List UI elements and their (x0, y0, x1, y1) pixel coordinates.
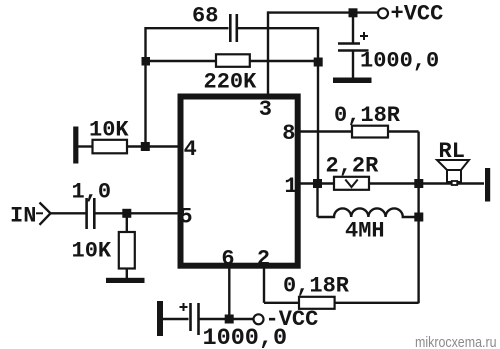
pin 4 label (184, 137, 197, 162)
wire pin3 vertical (267, 11, 269, 97)
wire top rail to +VCC (268, 11, 378, 13)
junction output node (414, 179, 423, 188)
capacitor C2 1000,0 plates (338, 44, 369, 51)
wire R3 to ground (126, 269, 128, 280)
pin 6 label (221, 247, 234, 272)
wire R4 to right rail (388, 130, 419, 132)
wire right rail vertical (417, 132, 419, 304)
resistor R5 2,2R body (334, 177, 369, 190)
wire ground to C4 (163, 318, 189, 320)
capacitor C1 68 plates (230, 14, 237, 42)
wire feedback node vertical (317, 27, 319, 184)
resistor R1 10K body (93, 140, 128, 154)
wire pin1 node down to L1 (316, 184, 318, 218)
wire +VCC cap drop (352, 13, 354, 43)
junction at +VCC rail (349, 8, 358, 17)
svg-text:1000,0: 1000,0 (360, 49, 439, 74)
op-amp U1 body (181, 97, 298, 266)
value label 10K (pin5) (72, 239, 112, 264)
svg-text:1,0: 1,0 (72, 180, 112, 205)
junction L1 right (414, 213, 423, 222)
pin 2 label (257, 247, 270, 272)
wire pin 2 to R6 (264, 302, 299, 304)
value label 0,18R (top) (334, 103, 401, 128)
wire pin 8 row (298, 130, 352, 132)
wire 68 row left (146, 27, 229, 29)
wire left node vertical (144, 27, 146, 147)
svg-text:1000,0: 1000,0 (203, 325, 288, 349)
value label 0,18R (bottom) (283, 273, 350, 298)
junction pin6 at -VCC rail (225, 315, 234, 324)
svg-text:5: 5 (179, 205, 192, 230)
speaker RL label (439, 139, 465, 164)
wire R6 to right rail (335, 302, 419, 304)
wire 68 row right (238, 27, 318, 29)
input arrow chevron (36, 203, 51, 225)
svg-text:2,2R: 2,2R (326, 154, 380, 179)
junction pin4 row (141, 142, 150, 151)
svg-text:4MH: 4MH (345, 218, 385, 243)
wire 220K row left (146, 60, 217, 62)
ground bar right of speaker (485, 168, 490, 202)
svg-text:1: 1 (284, 174, 297, 199)
svg-text:mikrocxema.ru: mikrocxema.ru (415, 334, 497, 349)
node +VCC terminal circle (378, 8, 388, 18)
svg-text:IN: IN (10, 204, 36, 229)
wire junction down to R3 (126, 213, 128, 232)
wire C3 to pin 5 (96, 212, 181, 214)
resistor R5 V mark (345, 180, 357, 188)
resistor R3 10K body (vertical) (119, 232, 135, 269)
junction pin1 node (313, 179, 322, 188)
wire pin 2 drop (263, 266, 265, 303)
pin 3 label (259, 97, 272, 122)
svg-text:220K: 220K (204, 69, 258, 94)
inductor L1 4MH (318, 208, 419, 217)
node -VCC terminal circle (254, 314, 264, 324)
wire cap to ground (352, 51, 354, 79)
ground bar below C2 (333, 78, 372, 84)
svg-text:3: 3 (259, 97, 272, 122)
wire 2,2R to output node (369, 182, 484, 184)
ground bar left of C4 (157, 301, 163, 336)
junction pin5 row (122, 209, 131, 218)
pin 5 label (179, 205, 192, 230)
resistor R2 220K body (216, 54, 250, 67)
capacitor C4 1000,0 plates (191, 303, 199, 335)
resistor R4 0,18R body (352, 126, 388, 138)
capacitor C3 1,0 plates (87, 198, 95, 229)
junction 220K right (314, 58, 323, 67)
watermark mikrocxema.ru (415, 334, 497, 349)
speaker RL symbol (437, 160, 469, 185)
net label -VCC (266, 307, 319, 332)
net label +VCC (391, 2, 444, 27)
svg-text:+VCC: +VCC (391, 2, 444, 27)
wire C4 to -VCC terminal (200, 318, 254, 320)
wire R1 to pin 4 (127, 145, 180, 147)
value label 1000,0 (top) (360, 49, 439, 74)
svg-text:10K: 10K (72, 239, 112, 264)
pin 8 label (282, 121, 295, 146)
wire IN to C3 (51, 212, 87, 214)
svg-text:6: 6 (221, 247, 234, 272)
value label 10K (pin4) (89, 117, 129, 142)
wire ground to R1 (78, 145, 93, 147)
svg-text:68: 68 (192, 3, 218, 28)
value label 1,0 (72, 180, 112, 205)
wire 220K row right (250, 60, 318, 62)
pin 1 label (284, 174, 297, 199)
svg-text:0,18R: 0,18R (334, 103, 401, 128)
capacitor C4 1000,0 plus sign (180, 303, 188, 311)
value label 220K (204, 69, 258, 94)
svg-text:10K: 10K (89, 117, 129, 142)
value label 68 (192, 3, 218, 28)
net label IN (10, 204, 36, 229)
svg-text:8: 8 (282, 121, 295, 146)
resistor R6 0,18R body (299, 297, 335, 309)
junction 220K left (142, 57, 151, 66)
wire pin 1 to junction (298, 182, 334, 184)
ground bar left of R1 (73, 127, 78, 164)
value label 1000,0 (bottom) (203, 325, 288, 349)
svg-text:0,18R: 0,18R (283, 273, 350, 298)
value label 4MH (345, 218, 385, 243)
ground bar below R3 (106, 278, 145, 283)
capacitor C2 1000,0 plus sign (360, 32, 368, 40)
value label 2,2R (326, 154, 380, 179)
wire pin 6 drop (228, 266, 230, 319)
svg-text:4: 4 (184, 137, 197, 162)
